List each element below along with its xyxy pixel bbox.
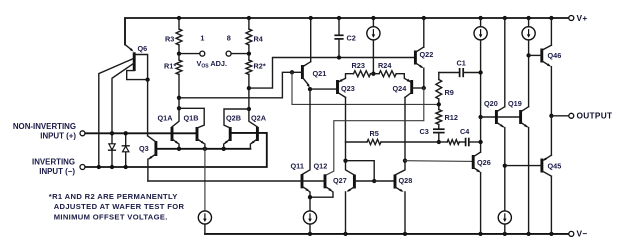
- svg-text:Q23: Q23: [341, 84, 355, 93]
- node Q27/Q28 bases: [372, 179, 376, 183]
- wire 480 bus: [480, 40, 482, 152]
- terminal inverting input: [80, 165, 85, 170]
- node Q6 base: [145, 77, 149, 81]
- svg-text:R23: R23: [352, 61, 365, 70]
- svg-text:OUTPUT: OUTPUT: [577, 111, 613, 121]
- node Q21 emitter: [308, 87, 312, 91]
- wire C1 left: [439, 72, 460, 74]
- svg-text:C3: C3: [420, 127, 429, 136]
- wire CS1 top: [372, 18, 374, 27]
- svg-text:R12: R12: [445, 113, 458, 122]
- transistor Q2A: [256, 127, 259, 141]
- wire tail: [204, 149, 206, 211]
- diode D2: [125, 133, 127, 145]
- transistor Q11: [301, 174, 304, 188]
- wire Q27 base: [354, 180, 374, 182]
- node output: [549, 114, 553, 118]
- transistor Q2B: [229, 127, 232, 141]
- wire V- rail: [205, 233, 569, 235]
- wire Q27 emitter to V-: [345, 192, 347, 234]
- terminal V-: [569, 231, 574, 236]
- wire R9 top: [438, 73, 440, 80]
- wire Q46 emitter to output: [550, 67, 552, 116]
- node on V- rail: [503, 232, 507, 236]
- svg-text:Q1A: Q1A: [158, 113, 174, 122]
- node on V+ rail: [177, 16, 181, 20]
- wire Q22 collector to rail: [423, 18, 425, 47]
- wire from pin 8: [231, 53, 249, 55]
- wire Q3 emitter to Q11/Q12 bases: [148, 180, 325, 182]
- node R2 bottom: [247, 86, 251, 90]
- svg-text:Q6: Q6: [138, 44, 148, 53]
- svg-text:Q3: Q3: [139, 144, 149, 153]
- svg-text:Q22: Q22: [420, 50, 434, 59]
- terminal V+: [569, 16, 574, 21]
- svg-text:INPUT (+): INPUT (+): [40, 131, 76, 140]
- diode D1: [111, 133, 113, 143]
- node R9/R12: [437, 102, 441, 106]
- resistor R5: [367, 139, 381, 144]
- wire Q24 collector down: [404, 97, 406, 160]
- wire Q3 emitter down: [147, 159, 149, 181]
- current source output stage: [498, 211, 511, 224]
- svg-text:Q2A: Q2A: [251, 113, 267, 122]
- resistor R4: [246, 29, 252, 45]
- node on V+ rail: [371, 16, 375, 20]
- svg-text:C4: C4: [460, 127, 470, 136]
- svg-text:NON-INVERTING: NON-INVERTING: [13, 122, 76, 131]
- transistor Q3: [154, 141, 157, 156]
- node on V+ rail: [422, 16, 426, 20]
- wire Q11/Q12 emitters: [309, 192, 333, 198]
- transistor Q1A: [171, 127, 174, 141]
- wire Q3 base / tail bus: [156, 148, 251, 150]
- svg-text:Q26: Q26: [477, 158, 491, 167]
- transistor Q21: [301, 65, 304, 79]
- transistor Q1B: [196, 127, 199, 141]
- wire R12 to C3: [438, 125, 440, 130]
- svg-text:Q2B: Q2B: [226, 113, 241, 122]
- node R1 bottom: [177, 96, 181, 100]
- transistor Q26: [472, 155, 475, 169]
- transistor Q46: [540, 49, 543, 63]
- resistor R9: [436, 80, 442, 100]
- wire inverting input: [85, 133, 266, 167]
- svg-text:1: 1: [200, 34, 204, 43]
- wire R2 to Q22 base: [249, 58, 416, 89]
- svg-text:INVERTING: INVERTING: [32, 158, 75, 167]
- capacitor C3: [433, 128, 445, 130]
- wire CS4 to V-: [504, 224, 506, 234]
- svg-text:R1*: R1*: [164, 62, 176, 71]
- node on V- rail: [549, 232, 553, 236]
- transistor Q23: [336, 80, 339, 94]
- node C4 right: [478, 140, 482, 144]
- terminal non-inverting input: [80, 131, 85, 136]
- current source second stage: [367, 27, 380, 40]
- wire Q20 emitter: [504, 128, 506, 211]
- svg-text:Q45: Q45: [548, 162, 562, 171]
- wire R3-R1 junction: [178, 45, 180, 60]
- node on V+ rail: [309, 16, 313, 20]
- svg-text:INPUT (−): INPUT (−): [39, 167, 75, 176]
- svg-text:V−: V−: [577, 229, 588, 239]
- node on V- rail: [343, 232, 347, 236]
- capacitor C2: [338, 18, 340, 35]
- transistor Q28: [394, 175, 397, 189]
- svg-text:R3: R3: [165, 34, 174, 43]
- transistor Q20: [495, 110, 498, 124]
- wire Q19/Q20 base line: [481, 116, 521, 118]
- wire Q22 emitter to Q12: [325, 88, 424, 176]
- node on V- rail: [478, 232, 482, 236]
- node Q1 collectors: [177, 106, 181, 110]
- wire Q2A emitter: [249, 144, 251, 149]
- svg-text:Q46: Q46: [548, 51, 562, 60]
- wire Q6 base to Q3 collector: [147, 80, 149, 136]
- node on V- rail: [526, 232, 530, 236]
- node on V- rail: [403, 232, 407, 236]
- node Q28 collector: [403, 159, 407, 163]
- wire Q28 collector: [396, 161, 405, 175]
- svg-text:Q21: Q21: [313, 69, 327, 78]
- node on V+ rail: [247, 16, 251, 20]
- current source input tail: [198, 211, 211, 224]
- transistor Q22: [414, 51, 417, 65]
- wire to pin 1: [179, 53, 200, 55]
- node Q11/Q12 emitters: [308, 195, 312, 199]
- current source mirror tail: [303, 211, 316, 224]
- svg-text:Q20: Q20: [484, 99, 498, 108]
- resistor R3: [176, 29, 182, 45]
- wire to CS mid: [309, 197, 311, 211]
- wire Q27 collector: [346, 161, 354, 175]
- svg-text:C2: C2: [347, 34, 356, 43]
- svg-text:Q24: Q24: [393, 84, 408, 93]
- wire CS3 top: [528, 18, 530, 27]
- wire R4-R2 junction: [248, 45, 250, 60]
- resistor R1*: [176, 60, 182, 74]
- wire Q2B emitter: [223, 144, 225, 149]
- svg-text:Q27: Q27: [333, 176, 347, 185]
- node Q20 base: [478, 115, 482, 119]
- wire Q45 collector to V-: [550, 176, 552, 234]
- wire Q11 collector: [302, 89, 310, 174]
- svg-text:R9: R9: [445, 88, 454, 97]
- current source gain stage: [474, 27, 487, 40]
- svg-text:MINIMUM OFFSET VOLTAGE.: MINIMUM OFFSET VOLTAGE.: [54, 212, 168, 221]
- current source bias top right: [522, 27, 535, 40]
- wire R1 to Q21 base: [179, 72, 292, 98]
- wire Q45 emitter to output: [550, 116, 552, 155]
- transistor Q27: [353, 175, 356, 189]
- svg-text:Q12: Q12: [314, 161, 328, 170]
- wire CS2 top: [480, 18, 482, 27]
- transistor Q45: [540, 159, 543, 173]
- node on V+ rail: [337, 16, 341, 20]
- wire CS3 to Q19 collector: [528, 40, 530, 107]
- wire Q23 collector down: [345, 97, 347, 160]
- capacitor C4: [459, 141, 465, 143]
- svg-text:C1: C1: [457, 59, 466, 68]
- wire Q21 base to R9 node: [292, 72, 439, 104]
- wire R3 top: [178, 18, 180, 29]
- node Q45 base: [503, 163, 507, 167]
- wire Q28 base: [374, 180, 395, 182]
- wire Q23 node to R5: [346, 141, 368, 143]
- wire Q1A emitter: [178, 144, 180, 149]
- resistor R24: [379, 71, 396, 77]
- wire Q46 collector to rail: [550, 18, 552, 45]
- wire Q28 to Q26 base: [405, 160, 473, 163]
- wire non-inverting input: [85, 132, 197, 134]
- svg-text:Q1B: Q1B: [184, 113, 199, 122]
- svg-text:*R1 AND R2 ARE PERMANENTLY: *R1 AND R2 ARE PERMANENTLY: [49, 192, 178, 201]
- svg-text:Q19: Q19: [508, 99, 522, 108]
- node Q27 collector: [343, 159, 347, 163]
- wire Q27 base loop: [346, 161, 375, 181]
- node Q46 base: [526, 53, 530, 57]
- wire Q6 base loop right: [134, 55, 147, 80]
- svg-text:Q28: Q28: [399, 176, 413, 185]
- transistor Q19: [519, 110, 522, 124]
- wire tail to V-: [204, 224, 206, 234]
- node R23/R24: [371, 72, 375, 76]
- wire Q28 emitter to V-: [404, 192, 406, 234]
- resistor R12: [436, 110, 442, 125]
- wire Q1B emitter: [204, 144, 206, 149]
- wire R5 to C3 node: [381, 141, 439, 143]
- wire R2 bottom: [248, 74, 250, 109]
- svg-text:R24: R24: [378, 61, 392, 70]
- wire output: [551, 115, 568, 117]
- wire Q6 base loop left: [127, 71, 148, 80]
- wire Q21 collector to rail: [310, 18, 312, 62]
- resistor R11: [439, 141, 447, 143]
- node on V+ rail: [478, 16, 482, 20]
- wire Q26 emitter to V-: [480, 173, 482, 234]
- wire V+ rail: [125, 18, 569, 45]
- wire Q22 emitter: [423, 68, 425, 88]
- wire CS1 to R23/R24: [372, 40, 374, 74]
- wire Q20 collector to rail: [504, 18, 506, 107]
- transistor Q12: [324, 174, 327, 188]
- pin 8: [226, 51, 231, 56]
- svg-text:ADJUSTED AT WAFER TEST FOR: ADJUSTED AT WAFER TEST FOR: [54, 202, 185, 211]
- node C3 bottom: [437, 140, 441, 144]
- wire Q19 emitter to V-: [528, 128, 530, 234]
- wire Q6 collector to non-inverting input: [112, 63, 134, 133]
- node on V+ rail: [526, 16, 530, 20]
- node Q21 base: [290, 70, 294, 74]
- pin 1: [200, 51, 205, 56]
- node bus Q2B: [222, 147, 226, 151]
- terminal OUTPUT: [569, 113, 574, 118]
- node C1 right: [478, 70, 482, 74]
- svg-text:R4: R4: [254, 34, 264, 43]
- node bus tail: [203, 147, 207, 151]
- wire R1 bottom: [178, 74, 180, 108]
- node bus Q1A: [177, 147, 181, 151]
- svg-text:V+: V+: [577, 13, 588, 23]
- wire R4 top: [248, 18, 250, 29]
- resistor R2*: [246, 60, 252, 74]
- wire R9 bottom: [438, 99, 440, 110]
- svg-text:Q11: Q11: [291, 161, 304, 170]
- transistor Q24: [410, 80, 413, 94]
- node on V+ rail: [549, 16, 553, 20]
- svg-text:8: 8: [227, 34, 231, 43]
- transistor Q6: [133, 52, 136, 71]
- resistor R23: [354, 71, 371, 77]
- svg-text:R2*: R2*: [254, 62, 266, 71]
- wire CS mid to V-: [309, 224, 311, 234]
- node on V- rail: [308, 232, 312, 236]
- wire Q6 collector to inverting input: [99, 58, 134, 167]
- svg-text:R5: R5: [370, 129, 379, 138]
- node Q2 collectors: [247, 107, 251, 111]
- capacitor C1: [459, 68, 461, 77]
- node on V+ rail: [503, 16, 507, 20]
